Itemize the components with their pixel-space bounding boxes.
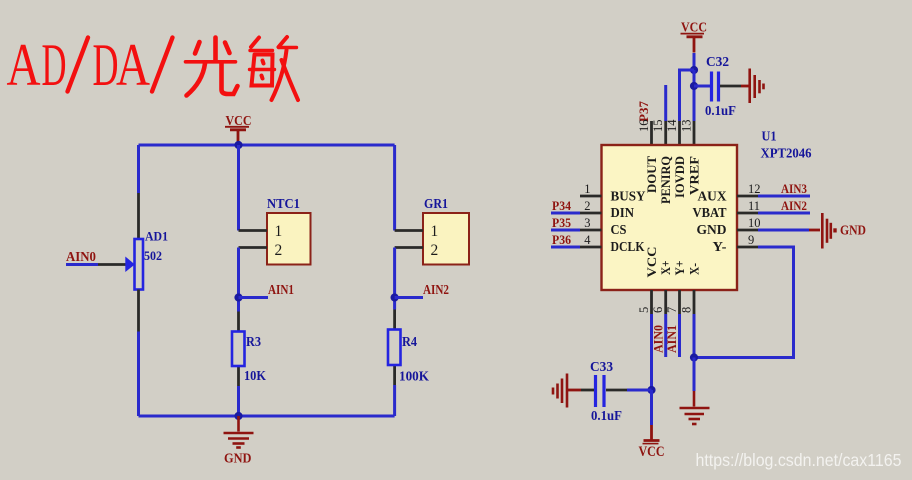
wire R3 top pin — [237, 312, 240, 332]
wire GR1 pin1 stub — [395, 229, 423, 232]
pin 14 stub — [678, 121, 681, 145]
svg-text:0.1uF: 0.1uF — [705, 103, 736, 118]
title char 敏 — [250, 37, 299, 100]
svg-text:P34: P34 — [552, 198, 571, 213]
svg-text:VBAT: VBAT — [693, 205, 727, 220]
svg-text:PENIRQ: PENIRQ — [658, 156, 673, 204]
svg-text:A: A — [7, 32, 41, 98]
wire P34 — [551, 212, 580, 215]
svg-text:7: 7 — [665, 307, 679, 313]
svg-text:10: 10 — [748, 216, 761, 230]
svg-text:AIN3: AIN3 — [781, 181, 807, 196]
svg-text:X+: X+ — [658, 261, 673, 276]
wire VREF pin13 — [693, 70, 696, 121]
svg-text:502: 502 — [144, 248, 162, 263]
wire X- pin8 down — [693, 314, 696, 358]
svg-text:CS: CS — [611, 222, 627, 237]
node C32 junction — [690, 82, 698, 90]
pin 5 stub — [650, 290, 653, 314]
resistor R4 — [388, 330, 429, 384]
svg-text:DCLK: DCLK — [611, 239, 645, 254]
svg-text:13: 13 — [680, 120, 694, 133]
wire ground lead C32 — [741, 85, 749, 88]
wire to C32 — [694, 85, 710, 88]
pin 11 stub — [737, 212, 758, 215]
wire Y+ hanging — [678, 314, 681, 357]
svg-text:100K: 100K — [399, 369, 429, 384]
wire VCC to NTC1 pin1 — [237, 145, 240, 231]
svg-text:D: D — [42, 32, 67, 98]
op-amp U1 chip body XPT2046 — [602, 129, 812, 291]
wire PENIRQ pin15 hanging — [664, 85, 667, 121]
svg-text:AD1: AD1 — [145, 229, 168, 244]
node AIN2 — [391, 282, 450, 302]
pin 15 stub — [664, 121, 667, 145]
wire VCC down — [693, 53, 696, 70]
wire left branch down to AD1 — [137, 145, 140, 193]
svg-text:R4: R4 — [402, 334, 417, 349]
svg-text:8: 8 — [680, 307, 694, 313]
pin 10 stub — [737, 229, 758, 232]
wire AIN2 — [758, 212, 810, 215]
svg-text:P35: P35 — [552, 215, 571, 230]
svg-text:14: 14 — [665, 119, 679, 132]
svg-text:AIN1: AIN1 — [268, 282, 294, 297]
svg-text:A: A — [116, 32, 150, 98]
power symbol VCC (top of U1) — [681, 21, 708, 53]
wire R4 bottom pin — [393, 365, 396, 385]
pin 12 stub — [737, 195, 758, 198]
svg-text:AIN0: AIN0 — [66, 249, 96, 264]
svg-text:Y+: Y+ — [672, 261, 687, 276]
pin 3 stub — [580, 229, 602, 232]
wire P36 — [551, 246, 580, 249]
resistor R3 — [232, 332, 266, 384]
wire AIN0 — [66, 263, 98, 266]
pin 9 stub — [737, 246, 758, 249]
svg-text:NTC1: NTC1 — [267, 196, 300, 211]
svg-text:DOUT: DOUT — [644, 156, 659, 193]
wire P35 — [551, 229, 580, 232]
svg-text:VCC: VCC — [639, 444, 665, 460]
svg-text:BUSY: BUSY — [611, 188, 646, 203]
wire down to ground — [693, 358, 696, 392]
svg-text:AIN2: AIN2 — [423, 282, 449, 297]
svg-text:0.1uF: 0.1uF — [591, 408, 622, 423]
svg-text:XPT2046: XPT2046 — [761, 146, 812, 161]
wire to IOVDD pin14 — [680, 70, 695, 121]
AD1 wiper arrow — [125, 257, 135, 273]
photoresistor GR1 — [423, 196, 469, 265]
wire AD1 top pin — [137, 193, 140, 239]
svg-text:D: D — [93, 32, 119, 98]
wire C33 to junction — [627, 389, 652, 392]
node VCC junction — [234, 141, 242, 149]
svg-text:GND: GND — [224, 452, 252, 467]
pin 16 stub — [650, 121, 653, 145]
svg-text:2: 2 — [275, 242, 283, 259]
svg-text:2: 2 — [431, 242, 439, 259]
power symbol VCC (left circuit) — [225, 114, 252, 145]
svg-text:https://blog.csdn.net/cax1165: https://blog.csdn.net/cax1165 — [696, 450, 902, 470]
svg-text:C33: C33 — [590, 359, 613, 374]
svg-text:9: 9 — [748, 233, 754, 247]
potentiometer AD1 — [135, 229, 169, 290]
svg-text:5: 5 — [637, 307, 651, 313]
svg-text:15: 15 — [651, 120, 665, 133]
svg-text:1: 1 — [431, 223, 439, 240]
wire ground lead — [809, 229, 820, 232]
wire AIN0 pin — [98, 263, 126, 266]
wire X+ hanging — [664, 314, 667, 357]
svg-text:AUX: AUX — [698, 188, 727, 203]
svg-text:VCC: VCC — [644, 247, 659, 278]
wire bottom rail — [139, 415, 395, 418]
wire NTC1 pin2 down to AIN1 — [237, 248, 240, 312]
node AIN1 — [234, 282, 294, 302]
wire R3 to rail — [237, 386, 240, 416]
wire GR1 pin2 stub — [395, 246, 423, 249]
title AD/DA/ — [7, 32, 151, 98]
wire NTC1 pin1 stub — [239, 229, 268, 232]
node C33 junction — [647, 386, 655, 394]
thermistor NTC1 — [267, 196, 311, 265]
node VCC-IOVDD junction — [690, 66, 698, 74]
ground (left of C33) — [553, 374, 567, 408]
pin 7 stub — [678, 290, 681, 314]
ground (pin10) — [822, 213, 835, 249]
svg-text:1: 1 — [584, 182, 590, 196]
wire VCC rail to GR1 — [393, 145, 396, 231]
wire R3 bottom pin — [237, 366, 240, 386]
pin 13 stub — [693, 121, 696, 145]
svg-text:AIN2: AIN2 — [781, 198, 807, 213]
node X- junction — [690, 353, 698, 361]
svg-text:3: 3 — [584, 216, 590, 230]
capacitor C33 — [590, 359, 622, 423]
wire pin10 to ground — [758, 229, 809, 232]
pin 8 stub — [693, 290, 696, 314]
wire VCC pin5 down — [650, 314, 653, 390]
wire C33 left lead — [581, 389, 594, 392]
wire top rail — [139, 144, 395, 147]
svg-text:AIN1: AIN1 — [664, 325, 679, 353]
pin 6 stub — [664, 290, 667, 314]
svg-text:2: 2 — [584, 199, 590, 213]
svg-text:GND: GND — [840, 224, 866, 239]
ground (right of C32) — [750, 69, 764, 104]
svg-text:DIN: DIN — [611, 205, 635, 220]
ground (below pin8) — [680, 391, 710, 424]
svg-text:4: 4 — [584, 233, 591, 247]
wire Y- route — [694, 247, 794, 358]
svg-text:6: 6 — [651, 307, 665, 313]
wire GR1 pin2 down to AIN2 — [393, 248, 396, 310]
svg-text:1: 1 — [275, 223, 283, 240]
svg-text:Y-: Y- — [713, 239, 727, 254]
wire C33 right lead — [606, 389, 627, 392]
title char 光 — [186, 38, 238, 96]
svg-text:P37: P37 — [636, 101, 651, 122]
svg-text:GND: GND — [697, 222, 727, 237]
svg-text:10K: 10K — [244, 368, 266, 383]
wire AD1 bottom pin — [137, 290, 140, 332]
node GND junction — [234, 412, 242, 420]
svg-text:X-: X- — [687, 263, 702, 275]
wire R4 top pin — [393, 310, 396, 330]
capacitor C32 — [705, 54, 736, 118]
power symbol VCC (bottom) — [639, 390, 665, 460]
svg-text:R3: R3 — [246, 334, 261, 349]
svg-text:GR1: GR1 — [424, 196, 448, 211]
pin 1 stub — [580, 195, 602, 198]
svg-text:11: 11 — [748, 199, 760, 213]
pin 4 stub — [580, 246, 602, 249]
wire R4 to rail — [393, 385, 396, 416]
svg-text:IOVDD: IOVDD — [672, 156, 687, 198]
svg-text:C32: C32 — [706, 54, 729, 69]
wire ground lead C33 — [567, 389, 582, 392]
wire C32 to ground — [720, 85, 741, 88]
svg-text:P36: P36 — [552, 232, 571, 247]
svg-text:U1: U1 — [762, 129, 777, 144]
pin 2 stub — [580, 212, 602, 215]
ground GND (left circuit) — [224, 416, 254, 448]
wire AD1 to bottom rail — [137, 332, 140, 417]
wire NTC1 pin2 stub — [239, 246, 268, 249]
svg-text:12: 12 — [748, 182, 761, 196]
wire AIN3 — [758, 195, 810, 198]
svg-text:16: 16 — [637, 120, 651, 133]
